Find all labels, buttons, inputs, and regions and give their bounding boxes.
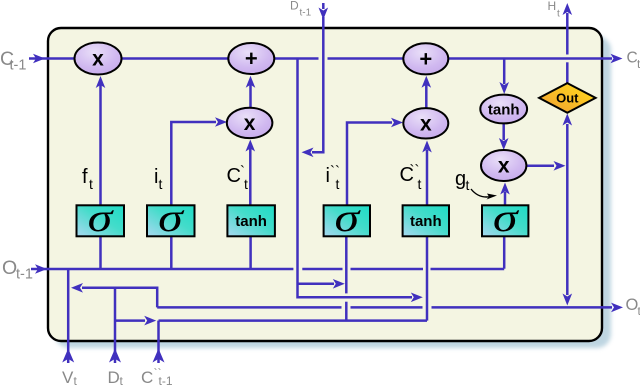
label i``(t) bbox=[326, 163, 341, 192]
svg-text:D: D bbox=[290, 0, 299, 13]
svg-text:σ: σ bbox=[493, 196, 520, 240]
svg-text:t: t bbox=[159, 176, 163, 192]
svg-text:O: O bbox=[2, 257, 17, 279]
arrowhead: D(t) bottom input bbox=[109, 349, 121, 363]
wire: C`(t) vertical tanh1 to x2 bbox=[249, 148, 252, 205]
wire: x1 to +1 bbox=[121, 57, 229, 60]
wire: O(t-1) input bus line with hop gaps bbox=[31, 268, 293, 271]
wire: sigma4 up to x4 bbox=[504, 192, 507, 205]
arrowhead: x4 right into Out vertical bbox=[554, 161, 566, 171]
wire: Cin-line from C``(t-1) corner right to tanh2 vertical bbox=[159, 319, 428, 322]
svg-text:f: f bbox=[82, 166, 88, 188]
svg-text:C: C bbox=[227, 165, 241, 187]
wire: sigma3 lower vertical upper segment bbox=[345, 236, 348, 293]
svg-text:t: t bbox=[466, 177, 470, 193]
svg-text:C: C bbox=[141, 368, 153, 385]
svg-text:t: t bbox=[418, 176, 422, 192]
svg-text:t-1: t-1 bbox=[10, 58, 27, 74]
sigma box 2 bbox=[147, 196, 195, 240]
multiplier ellipse x4 bbox=[481, 150, 526, 181]
svg-text:x: x bbox=[244, 112, 256, 135]
arrowhead: A-line left into V(t) vertical bbox=[71, 283, 83, 293]
wire: D(t) vertical bbox=[114, 288, 117, 363]
sigma box 1 bbox=[77, 196, 125, 240]
arrowhead: O(t) right output bbox=[611, 303, 623, 313]
wire: C``(t) vertical tanh2 to x3 bbox=[426, 150, 429, 205]
label i(t) bbox=[154, 166, 163, 192]
wire: +1 to +2 (hop gap at D(t-1) vertical) bbox=[274, 57, 319, 60]
svg-text:tanh: tanh bbox=[410, 213, 442, 230]
wire: sigma3 lower vertical lower segment joining Cin-line bbox=[345, 302, 348, 321]
svg-text:g: g bbox=[455, 168, 466, 190]
wire: f(t) vertical sigma1 to x1 bbox=[99, 82, 102, 205]
sigma box 3 bbox=[324, 196, 370, 240]
label C`(t) bbox=[227, 163, 249, 192]
wire: tanh2 lower vertical down to Cin-line corner bbox=[426, 236, 429, 320]
svg-text:x: x bbox=[92, 48, 104, 71]
wire: C-line branch down into tanh ellipse bbox=[503, 60, 506, 85]
svg-text:t-1: t-1 bbox=[300, 8, 312, 19]
arrowhead: D(t-1) left into 297 vertical bbox=[302, 148, 314, 158]
wire: sigma4 stub down to O-line corner bbox=[503, 236, 506, 268]
svg-text:t: t bbox=[120, 374, 124, 385]
svg-text:σ: σ bbox=[334, 196, 361, 240]
arrowhead: 297-line into tanh2 vertical bbox=[411, 293, 423, 303]
svg-text:σ: σ bbox=[88, 196, 115, 240]
svg-text:t: t bbox=[557, 9, 560, 20]
label H(t) outer bbox=[548, 0, 561, 20]
arrowhead: Out vertical down into O(t) line bbox=[563, 294, 573, 306]
Out gate diamond bbox=[539, 83, 596, 113]
svg-text:+: + bbox=[419, 46, 432, 71]
svg-text:tanh: tanh bbox=[235, 213, 267, 230]
wire: x4 right to Out vertical bbox=[526, 165, 554, 168]
wire: Out vertical above diamond to H(t) bbox=[566, 62, 569, 83]
arrowhead: x3 into +2 bbox=[422, 76, 432, 88]
arrowhead: C(t) right output bbox=[611, 54, 623, 64]
svg-text:D: D bbox=[108, 368, 120, 385]
g(t) curved pointer arrow bbox=[471, 189, 497, 200]
cell body box bbox=[48, 28, 602, 341]
wire: D(t-1) input down then left bbox=[322, 3, 325, 9]
label f(t) bbox=[82, 166, 93, 192]
wire: C``(t-1) vertical from bottom bbox=[157, 321, 160, 363]
cell body drop shadow bbox=[55, 36, 611, 348]
arrowhead: C`(t) into x2 bbox=[246, 140, 256, 152]
arrowhead: i(t) into x2 bbox=[215, 117, 227, 127]
label C(t) outer bbox=[627, 50, 640, 72]
arrowhead: O(t-1) into box bbox=[35, 264, 47, 274]
wire: O(t) output line with hop gaps bbox=[157, 306, 341, 309]
svg-text:t: t bbox=[74, 374, 78, 385]
arrowhead: sigma4 up into x4 bbox=[500, 183, 510, 195]
multiplier ellipse x3 bbox=[403, 108, 448, 138]
wire: tanh ellipse down to x4 bbox=[502, 123, 505, 140]
arrowhead: x2 into +1 bbox=[246, 76, 256, 88]
svg-text:x: x bbox=[420, 112, 432, 135]
svg-text:tanh: tanh bbox=[488, 102, 520, 119]
svg-text:H: H bbox=[548, 0, 557, 13]
arrowhead: H(t) up output bbox=[563, 3, 573, 15]
label D(t) outer bbox=[108, 368, 124, 385]
tanh box 1 bbox=[227, 205, 275, 236]
svg-text:t: t bbox=[336, 176, 340, 192]
wire: i``(t) path sigma3 up and right into x3 bbox=[347, 123, 392, 206]
label O(t) outer bbox=[626, 296, 640, 318]
label C``(t-1) outer bbox=[141, 366, 173, 385]
label g(t) bbox=[455, 168, 470, 193]
svg-text:+: + bbox=[245, 46, 258, 71]
wire: x3 up to +2 bbox=[425, 84, 428, 108]
svg-text:V: V bbox=[62, 368, 74, 385]
arrowhead: C-line down into tanh ellipse bbox=[499, 82, 509, 94]
svg-text:t: t bbox=[89, 176, 93, 192]
label C``(t) bbox=[400, 162, 422, 192]
multiplier ellipse x2 bbox=[227, 108, 273, 138]
wire: C(t-1) input line bbox=[29, 57, 75, 60]
svg-text:Out: Out bbox=[556, 90, 579, 105]
label V(t) outer bbox=[62, 368, 78, 385]
label C(t-1) outer bbox=[0, 48, 26, 73]
wire: +2 to C(t) output bbox=[448, 57, 612, 60]
arrowhead: i``(t) into x3 bbox=[391, 118, 403, 128]
wire: tanh1 stub to O-line bbox=[249, 236, 252, 269]
wire: x2 up to +1 bbox=[249, 84, 252, 108]
wire: i(t) path sigma2 up and right into x2 bbox=[171, 122, 216, 205]
wire: A-line D(t) junction left arrow and corner down to O(t) line bbox=[82, 288, 157, 308]
svg-text:σ: σ bbox=[158, 196, 185, 240]
wire: V(t) vertical from O-line to bottom input bbox=[67, 269, 70, 363]
label O(t-1) outer bbox=[2, 257, 33, 283]
wire: D(t) branch right into C``(t-1) vertical bbox=[115, 319, 145, 322]
wire: C-line branch down at 297.5 then right to tanh2 vertical bbox=[298, 60, 413, 298]
svg-text:t-1: t-1 bbox=[16, 267, 33, 283]
tanh box 2 bbox=[403, 205, 449, 236]
adder ellipse +1 bbox=[228, 43, 274, 74]
arrowhead: 297-line branch into sigma3 vertical bbox=[333, 279, 345, 289]
wire: sigma2 stub to O-line bbox=[170, 236, 173, 269]
wire: Out vertical below diamond down to O(t) line bbox=[566, 124, 569, 295]
arrowhead: C``(t) into x3 bbox=[422, 141, 432, 153]
tanh ellipse bbox=[480, 95, 527, 124]
arrowhead: D(t) branch into C``(t-1) vertical bbox=[144, 316, 156, 326]
sigma box 4 bbox=[482, 196, 528, 240]
arrowhead: tanh down into x4 bbox=[499, 138, 509, 150]
arrowhead: C``(t-1) bottom input bbox=[153, 349, 165, 363]
arrowhead: up into Out diamond bbox=[563, 114, 573, 126]
svg-text:t-1: t-1 bbox=[159, 374, 173, 385]
wire: branch of 297-line to sigma3 vertical bbox=[298, 283, 335, 286]
label D(t-1) outer bbox=[290, 0, 312, 19]
multiplier ellipse x1 bbox=[75, 43, 122, 75]
wire: sigma1 stub to O-line bbox=[99, 236, 102, 269]
svg-text:x: x bbox=[498, 155, 510, 178]
arrowhead: C(t-1) into box bbox=[33, 54, 45, 64]
arrowhead: f(t) into x1 bbox=[96, 76, 106, 88]
svg-text:t: t bbox=[244, 176, 248, 192]
adder ellipse +2 bbox=[403, 43, 448, 74]
arrowhead: D(t-1) downward bbox=[319, 8, 329, 20]
arrowhead: V(t) bottom input bbox=[62, 349, 74, 363]
